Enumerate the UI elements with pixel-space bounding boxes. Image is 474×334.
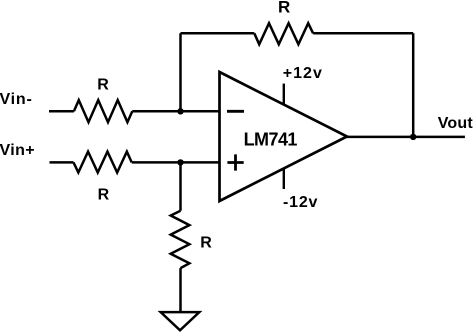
svg-text:LM741: LM741	[244, 129, 298, 149]
node junction dot B (non-inverting input / R3)	[177, 159, 183, 165]
svg-text:R: R	[200, 235, 212, 252]
wire W4 feedback top horizontal left of Rf	[181, 32, 255, 35]
svg-text:Vin+: Vin+	[0, 142, 35, 159]
svg-text:R: R	[98, 186, 110, 203]
ground	[161, 312, 200, 330]
wire W8 from R3 down to ground	[179, 268, 182, 312]
op-amp inverting input minus symbol	[227, 110, 244, 113]
wire W3 feedback vertical left	[179, 33, 182, 111]
resistor Rf	[254, 23, 313, 44]
svg-text:+12v: +12v	[283, 65, 323, 82]
resistor R3	[171, 211, 190, 268]
op-amp non-inverting input plus symbol	[227, 154, 243, 170]
resistor R1	[74, 100, 132, 122]
node junction dot A (inverting input / feedback)	[177, 108, 183, 114]
node junction dot C (output / feedback)	[410, 134, 416, 140]
svg-text:Vout: Vout	[438, 115, 474, 132]
svg-text:-12v: -12v	[283, 194, 318, 211]
op-amp U1 triangle	[220, 72, 348, 201]
wire W4 feedback top horizontal right of Rf	[313, 32, 413, 35]
wire W5 feedback vertical right	[412, 33, 415, 137]
op-amp V- pin	[283, 168, 285, 189]
svg-text:R: R	[97, 77, 109, 94]
wire W2 right of R2 to op-amp non-inverting input	[132, 161, 220, 164]
wire W7 from node B down to R3	[179, 162, 182, 210]
wire W6 output	[347, 136, 465, 139]
svg-text:Vin-: Vin-	[0, 91, 33, 108]
wire W2 left of R2	[50, 161, 74, 164]
wire W1 right of R1 to op-amp inverting input	[132, 110, 219, 113]
wire W1 left of R1	[49, 110, 74, 113]
op-amp V+ pin	[283, 84, 285, 105]
resistor R2	[74, 152, 132, 173]
svg-text:R: R	[278, 0, 290, 16]
